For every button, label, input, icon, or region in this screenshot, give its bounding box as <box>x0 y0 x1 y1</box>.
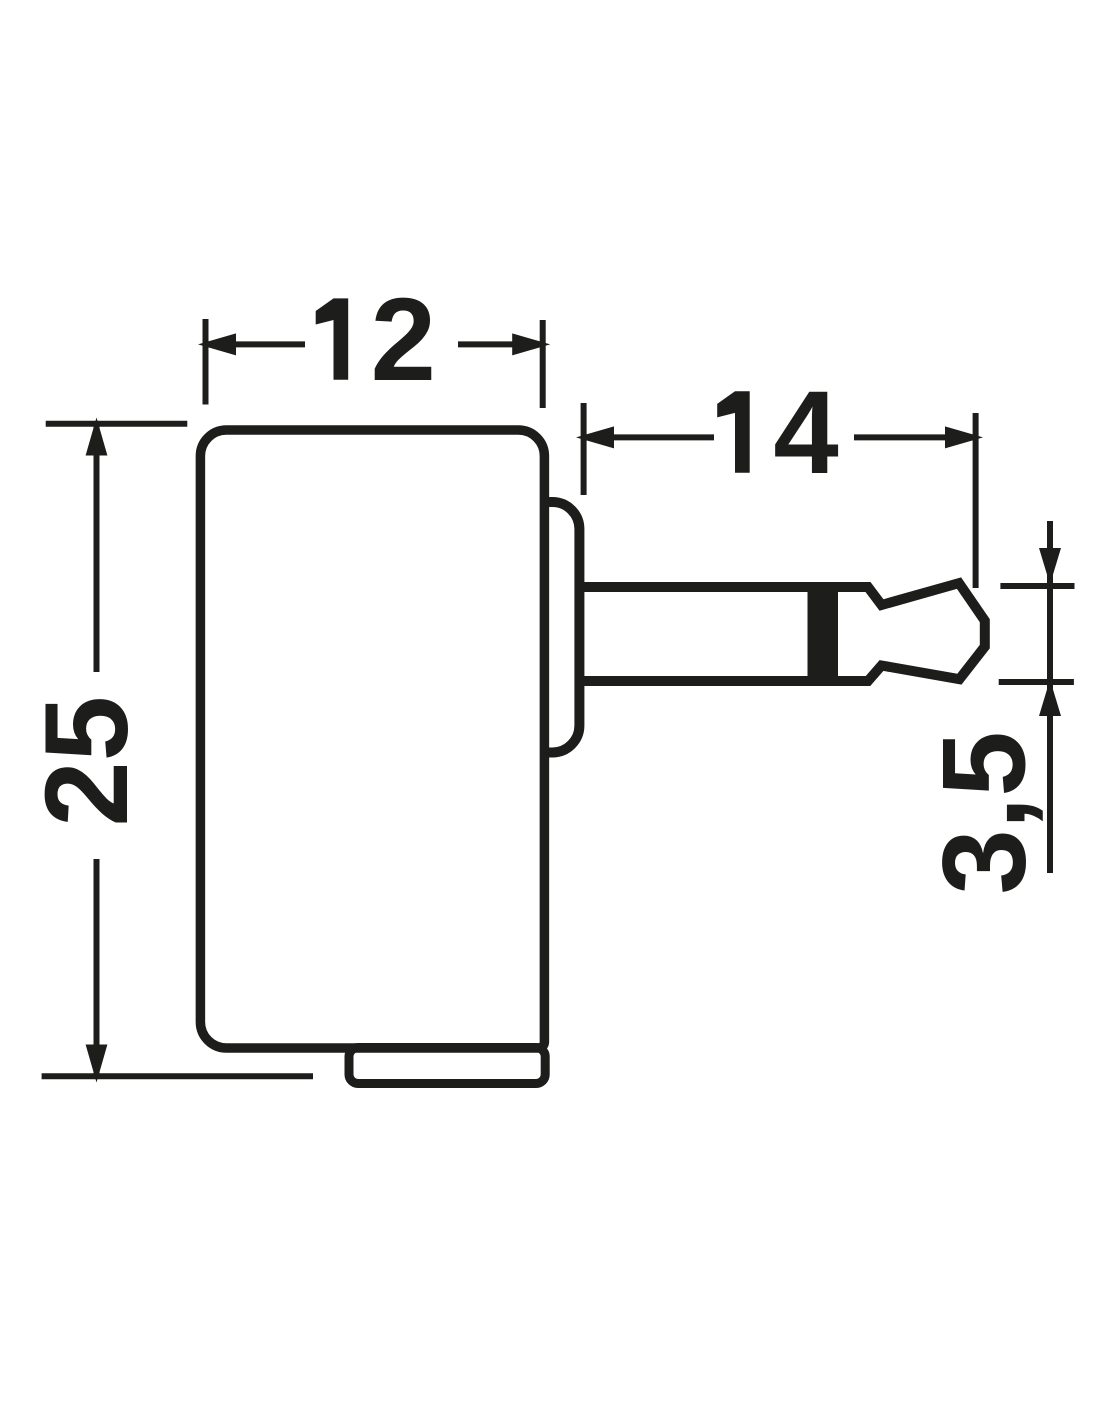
arrow bottom 25 <box>86 1045 108 1083</box>
extension tick right of 14 <box>973 413 979 588</box>
arrow down 3,5 <box>1039 548 1061 585</box>
extension line bottom of 3,5 <box>999 679 1074 685</box>
extension line top of 25 <box>46 421 188 427</box>
dimension 3,5 <box>999 521 1075 873</box>
extension line bottom of 25 <box>42 1073 313 1079</box>
svg-text:2: 2 <box>371 274 436 405</box>
dimension 25 <box>42 424 313 1077</box>
dimension line 12 <box>206 341 544 347</box>
svg-text:25: 25 <box>21 696 152 827</box>
arrow up 3,5 <box>1039 680 1061 717</box>
dimension line 25 <box>94 424 100 1076</box>
extension tick left of 12 <box>203 319 209 405</box>
dimension line 14 <box>584 434 976 440</box>
connector body <box>200 430 544 1048</box>
arrow left 14 <box>576 426 614 448</box>
arrow right 14 <box>945 426 983 448</box>
cable entry tab <box>349 1048 545 1084</box>
dimension 12 <box>206 319 544 408</box>
dimension line 3,5 <box>1047 521 1053 873</box>
dimension 14 <box>584 403 976 588</box>
arrow left 12 <box>198 333 236 355</box>
plug shaft and tip outline <box>578 583 985 681</box>
label 12 <box>316 298 349 379</box>
label 14 <box>717 391 750 472</box>
arrow right 12 <box>512 333 550 355</box>
insulator band <box>808 582 839 686</box>
bushing collar <box>544 502 579 753</box>
extension line top of 3,5 <box>1000 583 1074 589</box>
extension tick right of 12 <box>540 320 546 408</box>
svg-text:3,5: 3,5 <box>919 731 1050 894</box>
arrow top 25 <box>86 418 108 456</box>
svg-text:4: 4 <box>773 367 838 498</box>
extension tick left of 14 <box>581 403 587 495</box>
